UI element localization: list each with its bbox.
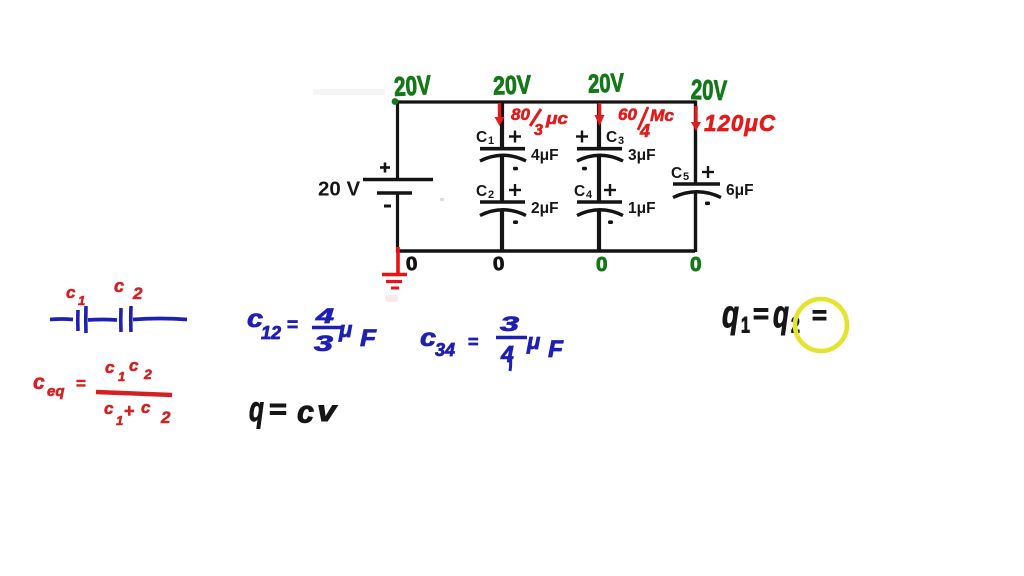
formula C34 = 3/4 uF (blue) (420, 313, 564, 371)
wire branch 2 lower (C4 to bottom rail) (597, 210, 601, 252)
sketch capacitor Cb label C2 (red) (114, 276, 143, 303)
capacitor C1 minus dot (513, 167, 518, 171)
svg-text:c: c (129, 356, 139, 375)
node voltage label 20V (above C1 branch) (492, 69, 532, 100)
faint dot near battery (440, 198, 444, 201)
svg-text:0: 0 (405, 254, 418, 276)
svg-text:F: F (548, 336, 564, 363)
svg-text:3μF: 3μF (628, 147, 656, 164)
svg-text:1: 1 (78, 293, 85, 308)
svg-text:0: 0 (492, 254, 505, 276)
formula Ceq = C1C2/(C1+C2) (red) (33, 356, 172, 428)
node A (green junction dot top-left) (392, 98, 399, 105)
svg-text:20V: 20V (690, 74, 727, 106)
svg-text:2: 2 (160, 408, 171, 427)
capacitor C1 curved plate (480, 155, 526, 161)
wire right branch lower (C5 to bottom rail) (694, 192, 697, 252)
equation q = cv (black) (249, 390, 339, 429)
svg-text:F: F (360, 325, 377, 352)
sketch capacitor Cb right plate (blue) (129, 306, 133, 332)
svg-text:6μF: 6μF (726, 182, 754, 199)
capacitor C3 curved plate (577, 155, 623, 161)
wire branch 2 middle (C3 to C4) (597, 156, 601, 202)
svg-text:c: c (33, 371, 45, 394)
sketch capacitor Ca label C1 (red) (66, 283, 85, 308)
svg-text:=: = (812, 301, 827, 330)
svg-text:3: 3 (314, 331, 333, 356)
wire bottom (0V rail) (396, 249, 695, 252)
svg-text:=: = (753, 299, 769, 330)
wire right branch upper (to C5) (694, 101, 697, 185)
sketch wire right (blue) (133, 319, 187, 320)
capacitor C3 plus sign (576, 131, 588, 143)
svg-text:34: 34 (435, 340, 455, 360)
wire branch 1 middle (C1 to C2) (500, 156, 504, 202)
svg-text:1μF: 1μF (628, 200, 656, 217)
sketch wire left (blue) (50, 317, 73, 321)
svg-text:c: c (420, 324, 436, 352)
svg-text:+: + (124, 401, 135, 421)
sketch capacitor Ca right plate (blue) (84, 306, 88, 333)
svg-text:q: q (249, 390, 264, 429)
svg-text:μ: μ (338, 317, 352, 342)
capacitor C5 top plate (673, 182, 720, 186)
svg-text:c: c (141, 398, 151, 417)
node voltage label 20V (above C3 branch) (587, 67, 625, 98)
svg-text:eq: eq (47, 383, 65, 400)
svg-text:C: C (476, 183, 487, 200)
capacitor C4 plus sign (604, 184, 616, 196)
highlight yellow circle around q2 (795, 299, 847, 351)
node voltage label 20V (above C5 branch) (690, 74, 727, 106)
ground (red earth symbol) (382, 247, 407, 288)
capacitor C2 minus dot (513, 220, 518, 224)
svg-text:4: 4 (639, 121, 650, 141)
svg-text:C: C (476, 129, 487, 146)
sketch capacitor Ca left plate (blue) (76, 310, 80, 331)
wire left branch lower (battery bottom lead) (396, 193, 399, 252)
charge label 60/4 uC (red) (618, 105, 675, 141)
svg-text:20V: 20V (492, 69, 532, 100)
svg-text:q: q (722, 292, 739, 335)
capacitor C5 curved plate (673, 192, 721, 198)
svg-text:C: C (671, 165, 682, 182)
svg-text:c: c (297, 394, 315, 429)
svg-text:3: 3 (534, 122, 543, 139)
battery V1 negative plate (377, 191, 412, 195)
current arrow into C1 branch (red) (495, 103, 505, 126)
node voltage label 20V (above battery) (393, 70, 432, 102)
wire branch 1 lower (C2 to bottom rail) (500, 210, 504, 252)
svg-text:12: 12 (261, 323, 281, 343)
svg-text:20V: 20V (393, 70, 432, 102)
svg-text:Mc: Mc (650, 106, 675, 125)
wire branch 1 upper (to C1) (500, 101, 504, 150)
svg-text:120μC: 120μC (704, 110, 776, 136)
svg-text:=: = (287, 315, 298, 336)
svg-text:80: 80 (511, 105, 530, 124)
battery V1 minus sign (384, 205, 391, 208)
capacitor C5 plus sign (702, 166, 714, 178)
svg-text:q: q (773, 292, 789, 335)
current arrow into C5 branch (red) (691, 106, 701, 131)
sketch wire middle (blue) (88, 318, 117, 322)
svg-text:2: 2 (143, 366, 152, 382)
capacitor C4 minus dot (608, 220, 613, 224)
svg-text:60: 60 (618, 105, 637, 124)
svg-text:20V: 20V (587, 67, 625, 98)
svg-text:2: 2 (132, 284, 143, 303)
wire branch 2 upper (to C3) (597, 101, 601, 150)
svg-text:c: c (104, 399, 114, 418)
svg-text:μc: μc (545, 109, 569, 128)
wire top (node 20V rail) (396, 100, 696, 103)
capacitor C2 curved plate (480, 210, 526, 216)
svg-text:3: 3 (618, 135, 624, 147)
capacitor C2 plus sign (509, 184, 521, 196)
faint erased smudge line (313, 89, 385, 95)
capacitor C2 top plate (480, 200, 525, 204)
svg-text:0: 0 (596, 254, 608, 276)
svg-text:1: 1 (116, 413, 123, 428)
svg-text:=: = (468, 332, 479, 352)
svg-text:4: 4 (314, 305, 334, 328)
sketch capacitor Cb left plate (blue) (119, 308, 123, 332)
charge label 80/3 uC (red) (511, 105, 569, 139)
svg-text:3: 3 (500, 313, 520, 336)
svg-text:C: C (606, 129, 617, 146)
svg-text:2: 2 (488, 189, 494, 201)
svg-text:5: 5 (683, 171, 689, 183)
svg-text:=: = (269, 395, 287, 425)
svg-text:c: c (114, 276, 124, 296)
battery V1 plus sign (380, 163, 390, 173)
capacitor C1 plus sign (509, 131, 521, 143)
capacitor C3 minus dot (582, 167, 587, 171)
capacitor C4 top plate (577, 200, 622, 204)
svg-text:C: C (574, 183, 585, 200)
faint pink smudge (385, 295, 398, 302)
svg-text:μ: μ (526, 329, 540, 354)
battery V1 positive plate (363, 178, 433, 182)
capacitor C3 top plate (577, 147, 622, 151)
svg-text:4μF: 4μF (531, 147, 559, 164)
svg-text:1: 1 (488, 135, 494, 147)
svg-text:2μF: 2μF (531, 200, 559, 217)
svg-text:v: v (317, 394, 339, 428)
formula C12 = 4/3 uF (blue) (247, 305, 377, 356)
svg-text:0: 0 (690, 254, 702, 276)
current arrow into C3 branch (red) (595, 103, 605, 126)
capacitor C4 curved plate (577, 210, 623, 216)
capacitor C5 minus dot (705, 202, 710, 206)
svg-text:c: c (105, 358, 115, 377)
svg-text:1: 1 (741, 313, 750, 338)
svg-text:20 V: 20 V (318, 178, 360, 201)
equation q1 = q2 = (black) (722, 292, 827, 338)
svg-text:=: = (76, 374, 86, 393)
svg-text:c: c (66, 283, 76, 302)
svg-text:4: 4 (586, 189, 593, 201)
wire left branch upper (battery top lead) (396, 101, 399, 179)
capacitor C1 top plate (480, 147, 525, 151)
svg-text:1: 1 (118, 369, 125, 384)
